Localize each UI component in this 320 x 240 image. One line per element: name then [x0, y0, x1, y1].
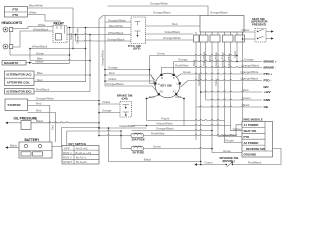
- svg-text:Orange/Black: Orange/Black: [106, 82, 124, 86]
- svg-text:Red: Red: [243, 88, 249, 92]
- ground arrow battery Black: [5, 144, 19, 149]
- svg-text:A2: A2: [160, 90, 164, 94]
- svg-text:Black: Black: [144, 158, 152, 162]
- svg-text:PTO +: PTO +: [264, 72, 273, 76]
- svg-text:Yellow/Black: Yellow/Black: [164, 30, 181, 34]
- ground wire reverse switch: [194, 161, 226, 166]
- alternator (AC) box: [5, 71, 35, 86]
- svg-text:PTO: PTO: [244, 135, 251, 139]
- wire Green to GND: [206, 96, 262, 100]
- svg-text:RUN 2: RUN 2: [63, 156, 72, 160]
- svg-text:Orange/White: Orange/White: [221, 51, 225, 68]
- svg-text:Red/White: Red/White: [151, 132, 165, 136]
- svg-text:Orange/Black: Orange/Black: [156, 127, 174, 131]
- svg-text:OFF: OFF: [64, 146, 70, 150]
- svg-text:White/Black: White/Black: [32, 45, 48, 49]
- svg-text:Green: Green: [205, 161, 213, 165]
- wire Orange to brake switch: [98, 109, 120, 114]
- RMC module box: [242, 118, 273, 158]
- wire Yellow to seat switch: [241, 28, 255, 39]
- svg-text:BRAKE -: BRAKE -: [264, 65, 277, 69]
- oil pressure switch: [14, 117, 38, 130]
- wire Black to OIL: [196, 103, 262, 107]
- wire bundle vertical 7: [227, 42, 231, 126]
- svg-text:Blue: Blue: [37, 71, 43, 75]
- svg-text:BRAKE +: BRAKE +: [264, 59, 278, 63]
- seat switch box: [255, 29, 266, 43]
- wire bundle vertical 2: [197, 42, 201, 165]
- alternator (DC) box: [5, 89, 35, 95]
- wire Yellow/Black under brake: [98, 124, 146, 129]
- wire White headlight1 to relay: [13, 23, 53, 29]
- svg-text:RMC MODULE: RMC MODULE: [244, 118, 263, 122]
- wire Orange brake plus: [174, 58, 262, 74]
- wire Orange/White from pto switch: [146, 36, 194, 40]
- wire Black from oil pressure with hops: [31, 119, 100, 124]
- connector plug 1: [194, 35, 200, 42]
- wire Red to key switch: [104, 71, 155, 83]
- svg-text:Yellow: Yellow: [241, 28, 250, 32]
- svg-text:Purple: Purple: [226, 139, 235, 143]
- svg-text:Red: Red: [109, 71, 115, 75]
- svg-text:Red/Black: Red/Black: [36, 88, 50, 92]
- wire Yellow to brake switch: [98, 100, 120, 105]
- pto switch dashed box: [128, 17, 146, 51]
- wire Blue/White relay to PTO switch: [67, 24, 131, 28]
- svg-text:Orange/Black: Orange/Black: [107, 37, 125, 41]
- svg-text:Yellow: Yellow: [102, 100, 111, 104]
- wire White/Black mid: [30, 45, 86, 49]
- seat switch output arrows: [266, 30, 274, 39]
- vertical bus x=90: [89, 34, 91, 92]
- svg-text:Orange: Orange: [108, 66, 118, 70]
- wire Blue/White from PTO1: [28, 3, 74, 8]
- fuse 5A: [131, 146, 144, 154]
- wire Green mid: [10, 49, 70, 56]
- svg-text:Black: Black: [36, 119, 44, 123]
- svg-text:Orange: Orange: [102, 109, 112, 113]
- wire Orange/White from starter: [28, 97, 100, 102]
- svg-text:(OFF): (OFF): [133, 47, 141, 51]
- wire bundle vertical 3: [202, 42, 206, 100]
- key switch table: [62, 142, 99, 164]
- svg-text:ALTERNATOR (DC): ALTERNATOR (DC): [6, 90, 32, 94]
- svg-text:Red: Red: [36, 109, 42, 113]
- svg-text:Green: Green: [153, 145, 161, 149]
- wire bundle vertical 8: [233, 42, 237, 62]
- svg-text:OIL: OIL: [264, 105, 269, 109]
- svg-text:REVERSE SW.: REVERSE SW.: [246, 147, 265, 151]
- svg-text:White: White: [208, 55, 212, 62]
- svg-text:Red: Red: [37, 78, 43, 82]
- svg-text:AFTERFIRE COIL: AFTERFIRE COIL: [7, 80, 30, 84]
- svg-text:GND: GND: [264, 98, 272, 102]
- svg-text:B+S+A1: B+S+A1: [76, 160, 87, 164]
- svg-text:Purple: Purple: [161, 117, 170, 121]
- svg-text:L: L: [177, 82, 179, 86]
- wire bundle vertical 4: [208, 42, 212, 149]
- svg-text:N/C: N/C: [264, 85, 270, 89]
- wire Red from pto switch: [146, 22, 201, 26]
- svg-text:Yellow/White: Yellow/White: [156, 122, 173, 126]
- reverse switch: [220, 156, 239, 167]
- svg-text:Orange: Orange: [244, 58, 254, 62]
- wire Red starter to battery: [28, 102, 50, 142]
- wire Red key A1 stub: [176, 95, 185, 126]
- headlight lamp 1: [3, 27, 13, 32]
- svg-text:HEADLIGHTS: HEADLIGHTS: [2, 21, 23, 25]
- wire label Green vertical: [69, 32, 73, 40]
- svg-text:KEY SW.: KEY SW.: [161, 84, 173, 88]
- svg-text:ALTERNATOR (AC): ALTERNATOR (AC): [6, 73, 32, 77]
- connector plug 5: [235, 35, 245, 42]
- starter STARTER: [5, 99, 28, 111]
- wire Red/White fuse feed: [98, 135, 131, 137]
- vertical bus x=105: [101, 16, 105, 87]
- svg-text:Yellow: Yellow: [35, 59, 44, 63]
- svg-text:Yellow/Black: Yellow/Black: [202, 51, 206, 66]
- svg-text:White/Black: White/Black: [108, 31, 124, 35]
- wire Red/Black reverse to module: [233, 148, 281, 164]
- svg-text:Orange/White: Orange/White: [150, 2, 168, 6]
- ground arrow oil pressure: [5, 122, 21, 124]
- svg-text:Red/Black: Red/Black: [248, 161, 262, 165]
- svg-text:BATTERY: BATTERY: [25, 138, 41, 142]
- svg-text:Green: Green: [36, 51, 44, 55]
- connector pins: [196, 32, 243, 35]
- wire fuse link vertical: [120, 131, 122, 149]
- wire Yellow/Black from pto switch: [146, 30, 194, 34]
- svg-text:PTO: PTO: [13, 13, 20, 17]
- wire Yellow to key switch: [104, 77, 155, 87]
- wire Red/Black from alternator DC: [34, 88, 90, 92]
- wire Red/White brake minus: [161, 64, 262, 74]
- brake switch label: [117, 94, 133, 101]
- svg-text:Orange/White: Orange/White: [101, 49, 105, 66]
- wire label Red vertical: [50, 125, 54, 130]
- wire Orange to key switch: [104, 66, 155, 81]
- wire vertical x=73: [72, 8, 74, 49]
- node relay junction: [69, 27, 74, 64]
- svg-text:Red: Red: [176, 95, 182, 99]
- svg-text:White/Black: White/Black: [33, 27, 49, 31]
- svg-text:Green: Green: [233, 50, 237, 58]
- svg-text:Orange/White: Orange/White: [214, 51, 218, 68]
- wire White/Black relay to PTO switch: [67, 31, 131, 35]
- svg-text:RUN 1: RUN 1: [63, 151, 72, 155]
- wire Blue mid: [29, 48, 90, 61]
- wire Red from afterfire coil: [34, 78, 86, 82]
- svg-text:20A FUSE: 20A FUSE: [132, 138, 145, 142]
- svg-text:PTO -: PTO -: [264, 78, 272, 82]
- PTO connector box 2: [13, 13, 20, 17]
- svg-text:S: S: [173, 76, 175, 80]
- wire Orange/Black to key switch: [105, 82, 157, 91]
- brake switch box: [120, 102, 132, 118]
- wire Orange/White top run: [108, 2, 209, 16]
- vertical bus x=85.5: [85, 27, 87, 82]
- svg-text:Black: Black: [10, 144, 18, 148]
- svg-text:PTO: PTO: [13, 7, 20, 11]
- svg-text:START: START: [63, 160, 72, 164]
- svg-text:Orange/Black: Orange/Black: [242, 64, 260, 68]
- svg-text:Yellow/Black: Yellow/Black: [119, 124, 136, 128]
- svg-text:Green: Green: [157, 52, 165, 56]
- svg-text:Orange/Black: Orange/Black: [153, 11, 171, 15]
- wire Blue from alternator AC: [34, 71, 91, 76]
- svg-text:Orange/White: Orange/White: [163, 36, 181, 40]
- headlight lamp 2: [3, 44, 13, 49]
- svg-text:PRESENT): PRESENT): [252, 23, 266, 27]
- svg-text:Red/White: Red/White: [175, 64, 189, 68]
- svg-text:Red: Red: [172, 22, 178, 26]
- wire Red to 12V: [200, 88, 262, 93]
- svg-text:Orange/White: Orange/White: [108, 18, 126, 22]
- svg-text:Red: Red: [50, 125, 54, 130]
- svg-text:Green: Green: [243, 96, 251, 100]
- harness connector block: [200, 16, 244, 33]
- svg-text:Green: Green: [223, 149, 231, 153]
- wire label Orange/White vertical: [76, 27, 80, 44]
- wire Green from fuse to module: [121, 145, 242, 153]
- svg-text:Orange/Black: Orange/Black: [210, 11, 228, 15]
- wire Red key A2 stub: [146, 95, 159, 121]
- key switch circle: [154, 73, 181, 98]
- wire Yellow/White from brake: [132, 122, 243, 131]
- svg-text:B+A1+L+A2: B+A1+L+A2: [76, 151, 92, 155]
- svg-text:(ON): (ON): [122, 97, 128, 101]
- svg-text:Green: Green: [183, 70, 191, 74]
- svg-text:Orange/White: Orange/White: [76, 27, 80, 44]
- svg-text:White: White: [38, 23, 46, 27]
- svg-text:5A FUSE: 5A FUSE: [133, 151, 145, 155]
- wire Yellow from magneto: [32, 59, 70, 63]
- svg-text:A1 POWER: A1 POWER: [244, 123, 259, 127]
- fuse 20A: [131, 133, 145, 141]
- wire battery plus to center: [52, 127, 100, 147]
- wire Black bottom run: [108, 127, 202, 162]
- wire Orange/Black pto minus: [181, 77, 263, 87]
- svg-text:MAGNETO: MAGNETO: [4, 61, 19, 65]
- svg-text:Blue/White: Blue/White: [109, 24, 123, 28]
- svg-text:A2 POWER: A2 POWER: [244, 141, 259, 145]
- svg-text:B+A1+L: B+A1+L: [76, 156, 87, 160]
- svg-text:Orange/Black: Orange/Black: [241, 77, 259, 81]
- svg-text:White: White: [29, 10, 37, 14]
- relay RELAY: [53, 22, 67, 43]
- vertical bus x=242.5 to module: [242, 39, 244, 122]
- svg-text:Blue/White: Blue/White: [29, 3, 43, 7]
- wire Purple from brake area: [147, 117, 243, 143]
- afterfire coil box: [7, 80, 30, 84]
- svg-text:RELAY: RELAY: [54, 22, 65, 26]
- svg-text:KEY SWITCH: KEY SWITCH: [69, 142, 87, 146]
- wire Red/White from fuse: [144, 125, 243, 136]
- wire White from PTO2: [28, 10, 61, 25]
- svg-text:Green: Green: [69, 32, 73, 40]
- wire Orange/Black upper run: [99, 11, 228, 19]
- svg-text:Orange/White: Orange/White: [36, 97, 54, 101]
- svg-text:Yellow: Yellow: [108, 77, 117, 81]
- svg-text:+12V: +12V: [264, 90, 271, 94]
- svg-text:Orange/White: Orange/White: [241, 70, 259, 74]
- wire Yellow/Black to module PTO: [218, 133, 242, 137]
- svg-text:Black: Black: [192, 59, 196, 66]
- connector plug 2: [200, 35, 209, 42]
- svg-text:Black: Black: [243, 103, 251, 107]
- svg-text:Red: Red: [36, 102, 42, 106]
- svg-text:Yellow: Yellow: [233, 127, 242, 131]
- wire Red starter to battery 2: [28, 109, 56, 142]
- svg-text:A1: A1: [173, 90, 177, 94]
- svg-text:Red: Red: [149, 95, 155, 99]
- wire bundle vertical 6: [221, 42, 225, 121]
- svg-text:OIL PRESSURE: OIL PRESSURE: [14, 117, 38, 121]
- svg-text:B: B: [161, 76, 163, 80]
- wire seat switch lower: [242, 38, 255, 40]
- wire Orange/Black from brake: [132, 127, 213, 132]
- svg-text:M+G+A2: M+G+A2: [76, 146, 88, 150]
- connector plug 4: [223, 35, 234, 42]
- PTO connector box 1: [5, 7, 28, 18]
- wire bundle vertical 5: [214, 42, 218, 137]
- wire headlight bus vertical: [9, 32, 11, 45]
- magneto MAGNETO: [2, 61, 32, 66]
- wire White/Black headlight2 to relay: [13, 27, 53, 47]
- wire Green key switch to bundle: [150, 52, 238, 84]
- svg-text:GROUND: GROUND: [244, 153, 256, 157]
- wire bundle vertical 1: [192, 42, 196, 140]
- svg-text:STARTER: STARTER: [8, 103, 21, 107]
- svg-text:Orange: Orange: [178, 58, 188, 62]
- seat switch label: [251, 17, 268, 27]
- battery BATTERY: [19, 138, 52, 158]
- wire Green pto plus: [176, 70, 262, 77]
- vertical bus x=99: [98, 19, 100, 136]
- svg-text:Yellow/Black: Yellow/Black: [221, 133, 238, 137]
- connector plug 3: [210, 35, 220, 42]
- wire Orange/White to PTO switch: [105, 18, 131, 22]
- wire Orange/Black to PTO switch: [75, 34, 131, 42]
- terminal labels right edge: [264, 59, 278, 109]
- HEADLIGHTS label: [2, 21, 23, 25]
- svg-text:SEAT SW.: SEAT SW.: [244, 129, 257, 133]
- wire to key switch table: [67, 130, 122, 146]
